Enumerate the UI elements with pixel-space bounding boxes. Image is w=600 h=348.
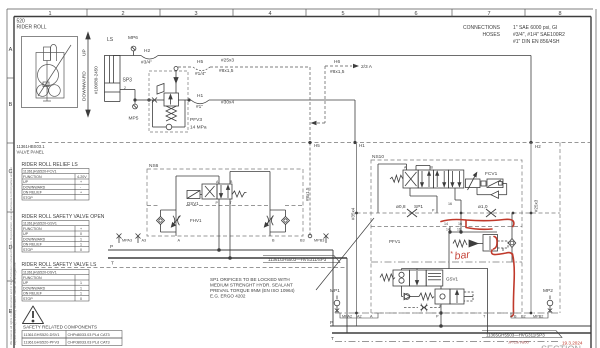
up/down arrow	[86, 33, 90, 117]
svg-text:14 MPa: 14 MPa	[190, 125, 207, 131]
svg-text:MP2: MP2	[543, 288, 553, 294]
valve panel boundary dashed	[35, 143, 591, 268]
svg-text:#8x1,5: #8x1,5	[219, 68, 234, 74]
svg-text:11361(H)S520-DSV1: 11361(H)S520-DSV1	[23, 271, 57, 275]
svg-text:DOWNWARD: DOWNWARD	[23, 286, 46, 290]
port MPA3 plug	[117, 234, 122, 244]
svg-text:H5: H5	[197, 59, 203, 65]
pilot valve below GSV1	[402, 289, 474, 304]
svg-text:1: 1	[48, 11, 51, 17]
svg-text:HOSES: HOSES	[482, 32, 500, 38]
svg-text:MEDIUM STRENGHT HYDR. SEALANT: MEDIUM STRENGHT HYDR. SEALANT	[210, 283, 293, 288]
svg-text:DOWNWARD: DOWNWARD	[82, 71, 88, 101]
svg-text:2/3 A: 2/3 A	[361, 64, 373, 70]
svg-text:16: 16	[448, 202, 452, 206]
NS6 manifold dashed box	[147, 169, 303, 236]
sq4 arrows	[451, 171, 453, 187]
svg-text:FUNCTION: FUNCTION	[23, 227, 42, 231]
svg-text:4-20V: 4-20V	[77, 175, 87, 179]
svg-text:T: T	[111, 261, 114, 267]
svg-text:#8x1,5: #8x1,5	[305, 187, 310, 201]
svg-text:UP: UP	[82, 49, 88, 56]
wire H5 pilot dashed	[178, 67, 310, 236]
svg-text:0: 0	[80, 232, 82, 236]
connector joint	[481, 181, 486, 186]
svg-text:CONNECTIONS: CONNECTIONS	[463, 25, 501, 31]
svg-text:B3: B3	[300, 239, 305, 243]
svg-text:#25x3: #25x3	[221, 58, 234, 64]
wire cylinder bottom port	[120, 90, 135, 101]
svg-text:#8x1,5: #8x1,5	[330, 69, 345, 75]
wire internal dashed line y213	[357, 143, 561, 314]
svg-text:MP1: MP1	[330, 288, 340, 294]
safety related components table	[22, 325, 122, 346]
svg-text:1: 1	[80, 243, 82, 247]
svg-text:DSV1: DSV1	[187, 201, 199, 206]
sq3 arrows	[436, 171, 438, 187]
svg-text:+: +	[80, 180, 82, 184]
svg-text:11361(H)S520-FCV1: 11361(H)S520-FCV1	[23, 170, 57, 174]
svg-text:STOP: STOP	[23, 297, 33, 301]
wire branch B	[230, 172, 270, 237]
svg-text:P: P	[110, 244, 113, 250]
crossed arrows in left square	[205, 186, 215, 197]
wire P line lower	[330, 325, 591, 327]
wire FCV1 B port	[416, 166, 430, 171]
svg-text:11361GHS520-DSV1: 11361GHS520-DSV1	[24, 333, 60, 337]
svg-text:H1: H1	[197, 93, 203, 99]
svg-text:14: 14	[444, 222, 448, 226]
svg-text:14: 14	[446, 228, 450, 232]
wire pipe 25x3 (H2 down to B2)	[530, 143, 532, 314]
svg-text:#3/4", #1/4" SAE100R2: #3/4", #1/4" SAE100R2	[513, 32, 565, 38]
sheet title 520 RIDER ROLL	[17, 19, 47, 31]
valve FCV1 proportional	[390, 170, 507, 198]
svg-text:A: A	[9, 47, 13, 53]
svg-text:JP/19/V800: JP/19/V800	[508, 340, 529, 345]
node H5 junction	[308, 141, 311, 144]
warning triangle	[23, 306, 44, 324]
connections note	[463, 25, 565, 45]
svg-text:DOWNWARD: DOWNWARD	[23, 237, 46, 241]
lower interface boundary	[335, 312, 560, 314]
table RIDER ROLL RELIEF LS	[22, 162, 90, 200]
relief valve PFV3 (dashed enclosure)	[149, 71, 188, 132]
svg-text:E.G. ERGO 4202: E.G. ERGO 4202	[210, 294, 246, 299]
svg-text:UP: UP	[23, 180, 29, 184]
ruler numbers	[48, 11, 561, 17]
wire H6 to 2/3 A	[314, 66, 352, 123]
ruler ticks top	[87, 9, 525, 17]
connector box	[487, 179, 503, 188]
svg-text:1: 1	[80, 237, 82, 241]
svg-text:16: 16	[457, 228, 461, 232]
svg-text:H1: H1	[359, 143, 365, 148]
node dots on y213	[460, 212, 463, 215]
svg-text:B: B	[9, 102, 13, 108]
row ticks left	[7, 78, 14, 281]
svg-text:#1/4": #1/4"	[195, 71, 206, 77]
sq2 arrows	[421, 171, 423, 187]
svg-text:NS6: NS6	[149, 163, 159, 169]
svg-text:1: 1	[80, 281, 82, 285]
table RIDER ROLL SAFETY VALVE OPEN	[22, 214, 105, 252]
wire T drop	[229, 199, 232, 259]
svg-text:ON RELIEF: ON RELIEF	[23, 243, 43, 247]
wire H2 top line	[113, 56, 531, 143]
svg-text:H2: H2	[144, 48, 150, 54]
svg-text:VALVE PANEL: VALVE PANEL	[17, 150, 45, 155]
svg-text:#30x4: #30x4	[221, 100, 234, 106]
orifice SP1 0,8	[407, 209, 417, 217]
wire T line lower	[332, 332, 591, 334]
sq1 X	[405, 172, 417, 186]
svg-text:STOP: STOP	[23, 196, 33, 200]
svg-text:1" SAE 6000 psi, GI: 1" SAE 6000 psi, GI	[513, 25, 557, 31]
flow control FHV right	[264, 210, 289, 232]
svg-text:2: 2	[121, 11, 124, 17]
svg-text:PFV3: PFV3	[190, 117, 202, 123]
svg-text:#3/4": #3/4"	[141, 60, 152, 66]
test point MP1	[334, 296, 340, 314]
svg-text:GSV1: GSV1	[446, 277, 459, 282]
svg-text:11361HBS03.1: 11361HBS03.1	[17, 144, 46, 149]
svg-text:16: 16	[458, 222, 462, 226]
cylinder LS	[105, 56, 121, 102]
wire T line upper	[108, 257, 347, 259]
solenoid box	[187, 191, 200, 199]
svg-text:ON RELIEF: ON RELIEF	[23, 191, 43, 195]
test point MP2	[547, 296, 553, 314]
svg-text:RIDER ROLL RELIEF LS: RIDER ROLL RELIEF LS	[22, 162, 79, 168]
svg-text:RIDER ROLL: RIDER ROLL	[17, 25, 47, 31]
svg-text:STOP: STOP	[23, 248, 33, 252]
leader line SP1 note	[316, 218, 374, 290]
svg-text:ø1,0: ø1,0	[478, 204, 488, 210]
wire FCV1 A port	[378, 164, 407, 213]
svg-text:CHPd8033.03 PLd CAT3: CHPd8033.03 PLd CAT3	[68, 341, 110, 345]
svg-text:1: 1	[80, 292, 82, 296]
svg-text:8: 8	[558, 11, 561, 17]
svg-text:CHPd8033.03 PLd CAT3: CHPd8033.03 PLd CAT3	[68, 333, 110, 337]
valve GSV1	[380, 269, 449, 297]
svg-text:5: 5	[341, 11, 344, 17]
svg-text:FUNCTION: FUNCTION	[23, 276, 42, 280]
svg-text:FUNCTION: FUNCTION	[23, 175, 42, 179]
svg-text:FCV1: FCV1	[485, 171, 498, 177]
spring left	[390, 175, 403, 182]
pilot dashed L with throttle	[404, 304, 440, 308]
wire H1 main line	[134, 99, 355, 143]
svg-text:SECTION: SECTION	[541, 344, 581, 348]
svg-text:A3: A3	[142, 239, 147, 243]
svg-text:11361GHS520-PFV3: 11361GHS520-PFV3	[24, 341, 60, 345]
node H2 junction	[529, 141, 532, 144]
svg-text:#1" DIN EN 856/4SH: #1" DIN EN 856/4SH	[513, 39, 560, 45]
svg-text:+: +	[80, 227, 82, 231]
port A3 plug	[136, 234, 141, 244]
left strip proprietary rotated text	[9, 167, 17, 345]
proportional solenoid right	[466, 179, 481, 188]
svg-text:+: +	[80, 191, 82, 195]
wire internal dashed line y226	[371, 226, 522, 228]
svg-text:UP: UP	[23, 281, 29, 285]
svg-text:MPA3: MPA3	[122, 239, 132, 243]
wire GSV1 T drop	[464, 296, 473, 298]
svg-text:#100/80-2450: #100/80-2450	[94, 66, 99, 94]
svg-text:RIDER ROLL SAFETY VALVE OPEN: RIDER ROLL SAFETY VALVE OPEN	[22, 214, 105, 220]
svg-text:MP5: MP5	[129, 116, 139, 122]
flow control FHV1 left	[157, 210, 181, 232]
node H1 junction	[353, 141, 356, 144]
svg-text:7: 7	[487, 11, 490, 17]
svg-text:bar: bar	[454, 249, 471, 263]
wire P drop	[218, 199, 221, 251]
svg-text:SP3: SP3	[123, 78, 133, 84]
svg-text:MPB3: MPB3	[314, 239, 324, 243]
svg-text:PFV1: PFV1	[389, 239, 401, 244]
straight arrows right square	[220, 185, 222, 198]
svg-text:FHV1: FHV1	[190, 218, 202, 223]
label plate HVS311	[263, 256, 340, 263]
valve DSV1	[187, 184, 247, 199]
rider roll pictorial box	[22, 37, 78, 108]
svg-text:DOWNWARD: DOWNWARD	[23, 185, 46, 189]
svg-text:SAFETY RELATED COMPONENTS: SAFETY RELATED COMPONENTS	[23, 325, 97, 330]
port MPB3 plug	[324, 234, 329, 244]
svg-text:NS10: NS10	[372, 154, 384, 160]
spring right	[232, 191, 247, 197]
table RIDER ROLL SAFETY VALVE LS	[22, 262, 98, 301]
svg-text:T: T	[331, 336, 334, 342]
svg-text:4: 4	[268, 11, 271, 17]
label plate HVG311 lower	[482, 331, 562, 338]
svg-text:11361(H)S520-GSV1: 11361(H)S520-GSV1	[23, 222, 57, 226]
NS10 manifold dashed box	[371, 160, 522, 313]
svg-text:0: 0	[80, 248, 82, 252]
svg-text:11365GH5503—HVG311/SP3: 11365GH5503—HVG311/SP3	[486, 333, 545, 338]
svg-text:LS: LS	[107, 37, 114, 43]
test point MP5	[133, 100, 138, 109]
svg-text:11361GH5503—HVS311/SP3: 11361GH5503—HVS311/SP3	[268, 257, 327, 262]
svg-text:#1": #1"	[196, 104, 203, 110]
svg-text:H6: H6	[334, 59, 340, 65]
red annotation *bar	[450, 249, 471, 263]
wire branch A	[176, 176, 219, 236]
port B3	[308, 234, 312, 238]
svg-text:*: *	[450, 251, 453, 258]
svg-text:#35x4: #35x4	[351, 207, 356, 220]
svg-text:ø0,8: ø0,8	[396, 204, 406, 210]
row letters	[9, 47, 13, 315]
svg-text:1: 1	[80, 286, 82, 290]
wire GSV1 main drop to P	[440, 286, 443, 327]
svg-text:#25x3: #25x3	[534, 199, 539, 212]
note SP1 orifices	[210, 277, 295, 299]
orifice 1,0	[486, 209, 496, 217]
wire P line upper	[108, 249, 333, 251]
svg-text:H2: H2	[535, 144, 541, 149]
svg-text:RIDER ROLL SAFETY VALVE LS: RIDER ROLL SAFETY VALVE LS	[22, 262, 98, 268]
svg-text:UP: UP	[23, 232, 29, 236]
svg-text:3: 3	[194, 11, 197, 17]
svg-text:ON RELIEF: ON RELIEF	[23, 292, 43, 296]
svg-text:SP1 ORIFICES TO BE LOCKED WITH: SP1 ORIFICES TO BE LOCKED WITH	[210, 277, 290, 282]
svg-text:SP1: SP1	[414, 204, 423, 210]
svg-text:MP6: MP6	[128, 35, 138, 41]
wire pipe 35x4 (H1 down to A2)	[356, 143, 358, 327]
svg-text:6: 6	[414, 11, 417, 17]
feedback triangle	[491, 191, 499, 198]
test point MP6	[131, 46, 136, 55]
svg-text:0: 0	[80, 297, 82, 301]
wire FCV1 P/T drops	[410, 188, 461, 227]
wire upper P/T down connectors	[333, 250, 347, 333]
svg-text:express authority is strictly: express authority is strictly forbidden.…	[13, 262, 17, 345]
red annotation line over PFV1	[441, 219, 514, 316]
svg-text:H5: H5	[314, 143, 320, 148]
svg-text:PREVAIL TORQUE 9NM (EN ISO 109: PREVAIL TORQUE 9NM (EN ISO 10964)	[210, 288, 295, 293]
bottom dashed boundary	[335, 341, 560, 343]
